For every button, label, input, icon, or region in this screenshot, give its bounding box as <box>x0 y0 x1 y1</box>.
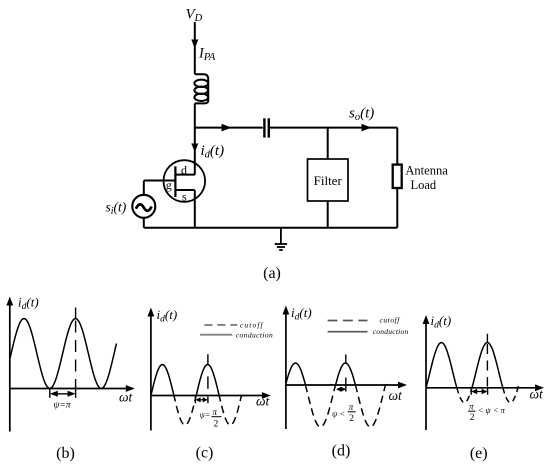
right wire top <box>396 128 398 165</box>
svg-text:2: 2 <box>470 413 475 423</box>
plot (b) tick below axis left <box>49 389 51 398</box>
svg-text:(e): (e) <box>470 445 488 462</box>
svg-text:so(t): so(t) <box>349 106 374 124</box>
wire top rail right segment <box>270 127 397 129</box>
plot (b) psi arrow <box>53 393 73 395</box>
plot (c) peak marker solid <box>207 354 209 364</box>
filter block <box>308 159 349 201</box>
svg-text:(c): (c) <box>196 445 214 462</box>
plot (d) waveform dashed dip 2 <box>355 384 385 427</box>
plot (c) legend solid conduction <box>200 334 232 336</box>
svg-text:Antenna: Antenna <box>405 164 448 178</box>
plot (c) psi arrow <box>197 399 207 401</box>
transistor M1 circle <box>164 160 206 202</box>
svg-text:ωt: ωt <box>530 387 545 402</box>
plot (d) peak marker lower <box>345 378 347 392</box>
svg-text:Load: Load <box>411 178 437 192</box>
plot (d) legend solid conduction <box>328 331 368 333</box>
svg-text:id(t): id(t) <box>18 295 39 313</box>
svg-text:ωt: ωt <box>256 394 271 409</box>
svg-text:ψ=π: ψ=π <box>54 401 71 411</box>
plot (d) waveform dashed dip 1 <box>305 385 335 427</box>
x axis <box>286 384 401 386</box>
plot (d) waveform solid hump 1 <box>286 363 305 385</box>
plot (c) tick right <box>207 397 209 404</box>
wire source bottom to rail <box>143 218 145 228</box>
svg-text:Filter: Filter <box>314 173 343 188</box>
filter top wire <box>327 128 329 159</box>
plot (c) waveform dashed dip 2 <box>219 394 242 425</box>
plot (c) peak marker dash below <box>207 376 209 388</box>
wire top rail left segment <box>195 127 263 129</box>
plot (c) legend dashed cutoff <box>204 324 237 326</box>
arrow on top rail <box>222 124 232 132</box>
plot (c) tick left <box>194 397 196 404</box>
plot (e) peak marker solid <box>486 334 488 342</box>
plot (b) sine waveform <box>10 319 117 389</box>
y axis <box>285 312 287 429</box>
svg-text:ωt: ωt <box>389 388 404 403</box>
plot (b) tick below axis right <box>75 389 77 398</box>
svg-text:π: π <box>469 401 474 411</box>
plot (b) peak marker dashed <box>75 321 77 389</box>
right wire bottom <box>396 188 398 228</box>
wire gate corner down to source top <box>143 181 145 195</box>
bottom rail wire <box>144 227 397 229</box>
svg-text:ψ <: ψ < <box>332 409 345 419</box>
current arrow I_PA <box>191 40 198 49</box>
plot (b) peak marker solid <box>75 308 77 320</box>
sine symbol inside source <box>137 204 152 210</box>
inductor L1 (RF choke) <box>194 74 208 103</box>
antenna load resistor <box>393 165 402 188</box>
coupling capacitor C1 <box>264 118 268 137</box>
plot (e) waveform solid hump 1 <box>426 343 457 388</box>
svg-text:ψ=: ψ= <box>200 411 210 420</box>
plot (e) waveform dashed dip 1 <box>457 388 472 403</box>
plot (d) waveform solid hump 2 <box>336 363 356 385</box>
svg-text:d: d <box>181 163 187 177</box>
svg-text:id(t): id(t) <box>157 307 178 325</box>
svg-text:(d): (d) <box>332 443 351 460</box>
plot (c) waveform solid hump 2 <box>197 365 219 395</box>
wire source down to rail <box>194 190 196 228</box>
svg-text:< ψ < π: < ψ < π <box>478 405 506 415</box>
output arrow <box>362 124 372 132</box>
plot (e) tick left <box>470 388 472 395</box>
source lead <box>175 189 194 191</box>
svg-text:2: 2 <box>349 414 354 424</box>
plot (e) tick right <box>487 388 489 395</box>
svg-text:id(t): id(t) <box>291 305 312 323</box>
x axis <box>151 395 265 397</box>
plot (e) waveform dashed dip 2 <box>503 383 520 403</box>
svg-text:id(t): id(t) <box>431 313 452 331</box>
plot (e) waveform solid hump 2 <box>472 343 503 388</box>
drain lead <box>175 174 194 176</box>
y axis <box>425 322 427 431</box>
y axis <box>150 314 152 431</box>
svg-text:ωt: ωt <box>119 390 134 405</box>
svg-text:π: π <box>213 407 218 417</box>
plot (c) waveform solid hump 1 <box>151 365 173 395</box>
svg-text:id(t): id(t) <box>201 143 225 161</box>
transistor channel bar <box>174 166 176 197</box>
ground <box>275 228 287 250</box>
plot (e) psi arrow <box>474 391 485 393</box>
plot (d) psi arrow <box>337 388 345 390</box>
svg-text:si(t): si(t) <box>106 200 127 218</box>
wire junction to drain <box>194 128 196 175</box>
wire VD to inductor <box>194 22 196 74</box>
svg-text:conduction: conduction <box>373 327 409 336</box>
svg-text:s: s <box>182 190 187 204</box>
svg-text:(a): (a) <box>263 265 281 282</box>
x axis <box>426 387 538 389</box>
signal source s_i circle <box>132 195 155 218</box>
drain current arrow <box>191 144 198 153</box>
gate wire <box>144 180 175 182</box>
plot (d) legend dashed cutoff <box>328 320 368 322</box>
filter bottom wire <box>327 201 329 228</box>
svg-text:π: π <box>349 402 354 412</box>
plot (d) peak marker solid <box>345 355 347 363</box>
svg-text:conduction: conduction <box>236 330 273 339</box>
svg-text:(b): (b) <box>56 445 75 462</box>
svg-text:cutoff: cutoff <box>380 316 401 325</box>
y axis <box>9 303 11 432</box>
svg-text:2: 2 <box>214 420 219 430</box>
plot (e) peak marker dashed <box>486 344 488 387</box>
svg-text:cutoff: cutoff <box>240 320 264 329</box>
plot (c) waveform dashed dip 1 <box>174 394 197 425</box>
wire inductor to junction <box>194 103 196 127</box>
x axis <box>10 388 129 390</box>
